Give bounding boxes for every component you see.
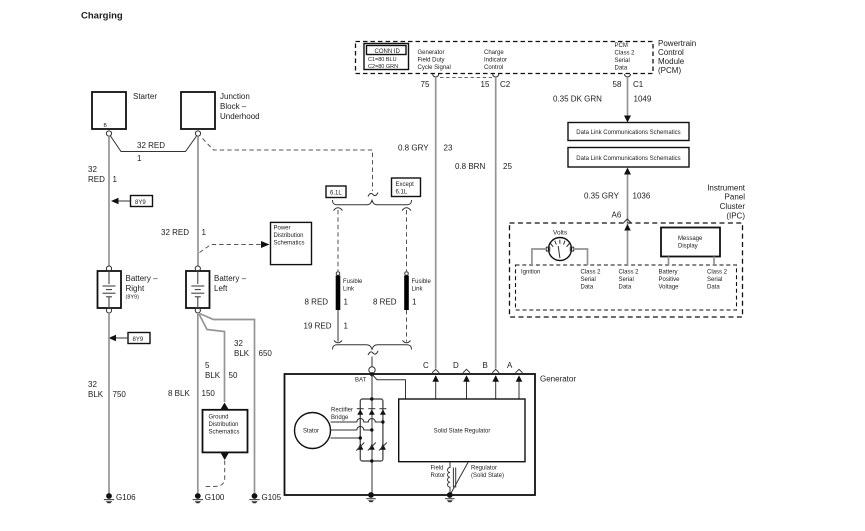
- svg-text:Serial: Serial: [581, 277, 596, 283]
- BAT wire down through rectifier bridge: [371, 374, 373, 495]
- svg-text:Data Link Communications Schem: Data Link Communications Schematics: [576, 156, 680, 162]
- svg-text:Underhood: Underhood: [220, 112, 260, 121]
- svg-text:BLK: BLK: [234, 349, 250, 358]
- svg-text:Class 2: Class 2: [707, 270, 728, 276]
- svg-text:Battery: Battery: [659, 270, 678, 276]
- svg-text:Cycle Signal: Cycle Signal: [418, 65, 451, 71]
- svg-text:Schematics: Schematics: [209, 430, 240, 436]
- wire 32 BLK 750 battery right to G106: [88, 313, 126, 493]
- IPC pin label class 2 serial data right: [707, 270, 728, 291]
- svg-text:C2=80 GRN: C2=80 GRN: [368, 64, 398, 70]
- svg-text:Voltage: Voltage: [659, 285, 680, 291]
- PCM pin label generator field duty cycle signal: [418, 50, 451, 71]
- svg-text:0.35 DK GRN: 0.35 DK GRN: [553, 95, 602, 104]
- ground G100: [193, 493, 225, 503]
- ground G106: [104, 493, 136, 503]
- PCM pin label class 2 serial data: [615, 43, 636, 72]
- volts gauge: [546, 230, 573, 261]
- svg-text:B: B: [483, 361, 488, 370]
- svg-text:Data: Data: [581, 285, 594, 291]
- svg-text:Display: Display: [678, 244, 698, 250]
- BAT terminal circle: [369, 367, 375, 373]
- svg-text:Rotor: Rotor: [431, 473, 446, 479]
- svg-text:Positive: Positive: [659, 277, 681, 283]
- svg-text:Stator: Stator: [303, 429, 319, 435]
- svg-text:Schematics: Schematics: [274, 241, 305, 247]
- branch connector left: [334, 208, 343, 211]
- branch connector right: [402, 208, 411, 211]
- svg-text:32: 32: [88, 165, 97, 174]
- battery B2 Battery Left: [186, 266, 247, 313]
- svg-text:Power: Power: [274, 226, 291, 232]
- dashed arrow to power distribution box: [200, 241, 270, 253]
- svg-text:BLK: BLK: [88, 390, 104, 399]
- tag box 6.1L: [326, 186, 346, 198]
- fusible link left: [305, 272, 364, 310]
- stator winding circle: [295, 413, 331, 449]
- data link communications schematics box 2: [568, 148, 689, 168]
- svg-text:Generator: Generator: [418, 50, 445, 56]
- IPC pin label class 2 serial data left: [581, 270, 602, 291]
- squiggle below bottom brace: [368, 351, 378, 355]
- connector dashed link pins 75 to 15: [440, 77, 492, 79]
- svg-text:750: 750: [113, 390, 127, 399]
- svg-text:Serial: Serial: [615, 58, 630, 64]
- wire starter down to battery right: [88, 136, 118, 266]
- bridge diodes top row: [357, 409, 387, 415]
- svg-text:Battery –: Battery –: [126, 274, 159, 283]
- svg-text:8 RED: 8 RED: [305, 298, 329, 307]
- svg-text:Junction: Junction: [220, 92, 250, 101]
- svg-text:5: 5: [205, 361, 210, 370]
- module label Instrument Panel Cluster IPC: [707, 184, 746, 221]
- svg-text:Distribution: Distribution: [274, 233, 304, 239]
- wire A6 class 2 into inner box: [624, 223, 631, 265]
- field rotor coil: [431, 462, 456, 494]
- squiggle above top brace: [368, 193, 378, 197]
- svg-text:Data Link Communications Schem: Data Link Communications Schematics: [576, 130, 680, 136]
- fusible link right: [373, 272, 432, 310]
- svg-text:Class 2: Class 2: [615, 51, 636, 57]
- svg-text:Fusible: Fusible: [412, 279, 432, 285]
- wire 0.35 GRY 1036 ipc to data link: [584, 168, 651, 223]
- svg-text:Volts: Volts: [553, 230, 568, 237]
- svg-text:0.8 GRY: 0.8 GRY: [398, 144, 429, 153]
- svg-text:A6: A6: [612, 211, 622, 220]
- wire 32 BLK 650 branch to G105: [200, 314, 273, 494]
- svg-text:1049: 1049: [634, 95, 652, 104]
- BAT branch wire to regulator: [372, 374, 406, 399]
- generator pin letters C D B A: [423, 361, 513, 370]
- svg-text:Serial: Serial: [619, 277, 634, 283]
- svg-text:Regulator: Regulator: [471, 466, 497, 472]
- svg-text:(Solid State): (Solid State): [471, 473, 504, 479]
- svg-text:1: 1: [137, 154, 142, 163]
- svg-text:15: 15: [481, 80, 490, 89]
- svg-text:Control: Control: [658, 48, 684, 57]
- svg-text:150: 150: [202, 389, 216, 398]
- svg-text:Field: Field: [431, 466, 444, 472]
- svg-text:G105: G105: [262, 493, 282, 502]
- wire volts class 2 serial data: [574, 249, 588, 265]
- svg-text:8Y9: 8Y9: [133, 337, 144, 343]
- svg-text:Data: Data: [615, 66, 628, 72]
- PCM conn id table: [364, 44, 409, 71]
- stator phase wire 3: [331, 437, 361, 439]
- svg-text:Instrument: Instrument: [707, 184, 746, 193]
- svg-text:BAT: BAT: [355, 378, 367, 384]
- svg-text:Serial: Serial: [707, 277, 722, 283]
- wire to BAT terminal: [371, 357, 373, 367]
- svg-text:8Y9: 8Y9: [135, 200, 146, 206]
- svg-text:0.35 GRY: 0.35 GRY: [584, 192, 620, 201]
- PCM pin 58 C1: [613, 74, 644, 89]
- svg-text:32 RED: 32 RED: [161, 228, 189, 237]
- svg-text:19 RED: 19 RED: [304, 322, 332, 331]
- connector tag 8Y9 lower: [109, 333, 151, 344]
- svg-text:Ignition: Ignition: [521, 270, 540, 276]
- dashed wire left branch: [337, 210, 339, 271]
- wire 0.8 BRN 25 pcm to generator pin B: [455, 77, 512, 369]
- svg-text:Ground: Ground: [209, 415, 229, 421]
- svg-text:Left: Left: [214, 284, 228, 293]
- svg-text:Charging: Charging: [81, 11, 123, 22]
- svg-text:CONN ID: CONN ID: [375, 49, 401, 55]
- svg-text:D: D: [453, 361, 459, 370]
- svg-text:32: 32: [234, 339, 243, 348]
- svg-text:Bridge: Bridge: [331, 415, 349, 421]
- wire volts ignition: [532, 249, 546, 265]
- IPC pin label battery positive voltage: [659, 270, 681, 291]
- svg-text:(8Y9): (8Y9): [126, 295, 140, 301]
- svg-text:58: 58: [613, 80, 622, 89]
- svg-text:6.1L: 6.1L: [330, 191, 342, 197]
- svg-text:Link: Link: [412, 287, 424, 293]
- svg-text:Class 2: Class 2: [581, 270, 602, 276]
- generator ground left: [366, 492, 375, 502]
- svg-text:1: 1: [412, 298, 417, 307]
- top brace: [333, 200, 412, 205]
- dashed wire right branch: [406, 210, 408, 271]
- ground G105: [249, 493, 281, 503]
- svg-text:G106: G106: [116, 493, 136, 502]
- PCM pin 15 C2: [481, 74, 511, 89]
- svg-text:1: 1: [344, 298, 349, 307]
- svg-text:1: 1: [113, 175, 118, 184]
- svg-text:Charge: Charge: [484, 50, 504, 56]
- svg-text:Message: Message: [678, 236, 703, 242]
- svg-text:BLK: BLK: [205, 371, 221, 380]
- svg-text:C2: C2: [500, 80, 511, 89]
- svg-text:Panel: Panel: [725, 193, 746, 202]
- svg-text:Except: Except: [396, 182, 415, 188]
- svg-text:C1=80 BLU: C1=80 BLU: [368, 57, 397, 63]
- rectifier bridge box: [331, 399, 383, 461]
- starter S1: [92, 92, 157, 136]
- svg-text:650: 650: [259, 349, 273, 358]
- svg-text:32 RED: 32 RED: [137, 141, 165, 150]
- svg-text:1: 1: [344, 322, 349, 331]
- svg-text:6.1L: 6.1L: [396, 190, 408, 196]
- wire junction block down to battery left: [161, 136, 207, 266]
- PCM pin label charge indicator control: [484, 50, 507, 71]
- svg-text:Solid State Regulator: Solid State Regulator: [434, 429, 491, 435]
- svg-text:Cluster: Cluster: [720, 202, 746, 211]
- svg-text:Rectifier: Rectifier: [331, 408, 353, 414]
- bottom brace: [333, 345, 412, 350]
- wire message display class 2 serial data: [713, 257, 715, 266]
- svg-text:(PCM): (PCM): [658, 66, 681, 75]
- wire 8 BLK 150 battery left to G100: [168, 313, 215, 493]
- wire 0.35 DK GRN 1049 pcm to data link: [553, 77, 652, 123]
- svg-text:Module: Module: [658, 57, 685, 66]
- svg-text:1036: 1036: [633, 192, 651, 201]
- generator ground right: [445, 492, 454, 502]
- power distribution schematics box: [271, 222, 312, 264]
- wire 19 RED 1 left branch lower: [304, 310, 349, 343]
- tag box Except 6.1L: [392, 178, 421, 197]
- svg-text:Block –: Block –: [220, 102, 247, 111]
- svg-text:Fusible: Fusible: [343, 279, 363, 285]
- IPC dashed module box: [510, 223, 743, 317]
- BAT junction dot: [370, 372, 374, 376]
- svg-text:75: 75: [421, 80, 430, 89]
- dashed wire right branch lower: [403, 310, 411, 343]
- module label Powertrain Control Module PCM: [658, 39, 696, 75]
- wire message display battery positive voltage: [668, 257, 670, 266]
- svg-text:C: C: [423, 361, 429, 370]
- svg-text:Link: Link: [343, 287, 355, 293]
- message display box: [661, 228, 720, 257]
- svg-text:Data: Data: [707, 285, 720, 291]
- svg-text:Powertrain: Powertrain: [658, 39, 696, 48]
- svg-text:8 BLK: 8 BLK: [168, 389, 190, 398]
- data link communications schematics box 1: [568, 123, 689, 141]
- dashed wire ground distribution to G100: [203, 453, 229, 487]
- wire 32 RED starter to junction block: [111, 136, 197, 163]
- generator pin chevrons: [432, 369, 522, 373]
- svg-text:Right: Right: [126, 284, 145, 293]
- svg-text:Field Duty: Field Duty: [418, 58, 445, 64]
- generator box: [285, 374, 536, 495]
- battery B1 Battery Right: [98, 266, 159, 313]
- dashed wire junction block to engine split: [203, 139, 373, 192]
- connector tag 8Y9 upper: [111, 196, 153, 207]
- svg-text:25: 25: [503, 162, 512, 171]
- svg-text:Distribution: Distribution: [209, 422, 239, 428]
- svg-text:Indicator: Indicator: [484, 58, 507, 64]
- svg-text:0.8 BRN: 0.8 BRN: [455, 162, 485, 171]
- svg-text:Battery –: Battery –: [214, 274, 247, 283]
- IPC pin label class 2 serial data centre: [619, 270, 640, 291]
- svg-text:C1: C1: [633, 80, 644, 89]
- solid state regulator box: [399, 399, 525, 462]
- wire 5 BLK 50 branch to ground distribution: [199, 314, 238, 409]
- svg-text:Class 2: Class 2: [619, 270, 640, 276]
- IPC inner dashed box: [516, 265, 737, 310]
- regulator solid state label and wire: [451, 462, 505, 494]
- PCM dashed module box: [356, 42, 654, 74]
- svg-text:32: 32: [88, 380, 97, 389]
- ground distribution schematics box: [203, 410, 248, 453]
- svg-text:PCM: PCM: [615, 43, 628, 49]
- stator phase wire 2: [331, 427, 372, 431]
- svg-text:Control: Control: [484, 65, 503, 71]
- svg-text:8 RED: 8 RED: [373, 298, 397, 307]
- svg-text:G100: G100: [205, 493, 225, 502]
- svg-text:50: 50: [229, 371, 238, 380]
- svg-text:(IPC): (IPC): [726, 212, 745, 221]
- regulator input wires with arrows: [432, 375, 522, 399]
- wire 0.8 GRY 23 pcm to generator pin C: [398, 77, 453, 369]
- svg-text:1: 1: [202, 228, 207, 237]
- svg-text:23: 23: [444, 144, 453, 153]
- svg-text:Starter: Starter: [133, 92, 157, 101]
- junction block JB: [181, 92, 260, 136]
- svg-text:Data: Data: [619, 285, 632, 291]
- bridge diodes bottom row: [356, 443, 387, 451]
- PCM pin 75: [421, 74, 439, 89]
- svg-text:RED: RED: [88, 175, 105, 184]
- svg-text:Generator: Generator: [540, 375, 576, 384]
- stator phase wire 1: [331, 419, 383, 422]
- bridge junction dots: [359, 397, 385, 462]
- svg-text:A: A: [507, 361, 513, 370]
